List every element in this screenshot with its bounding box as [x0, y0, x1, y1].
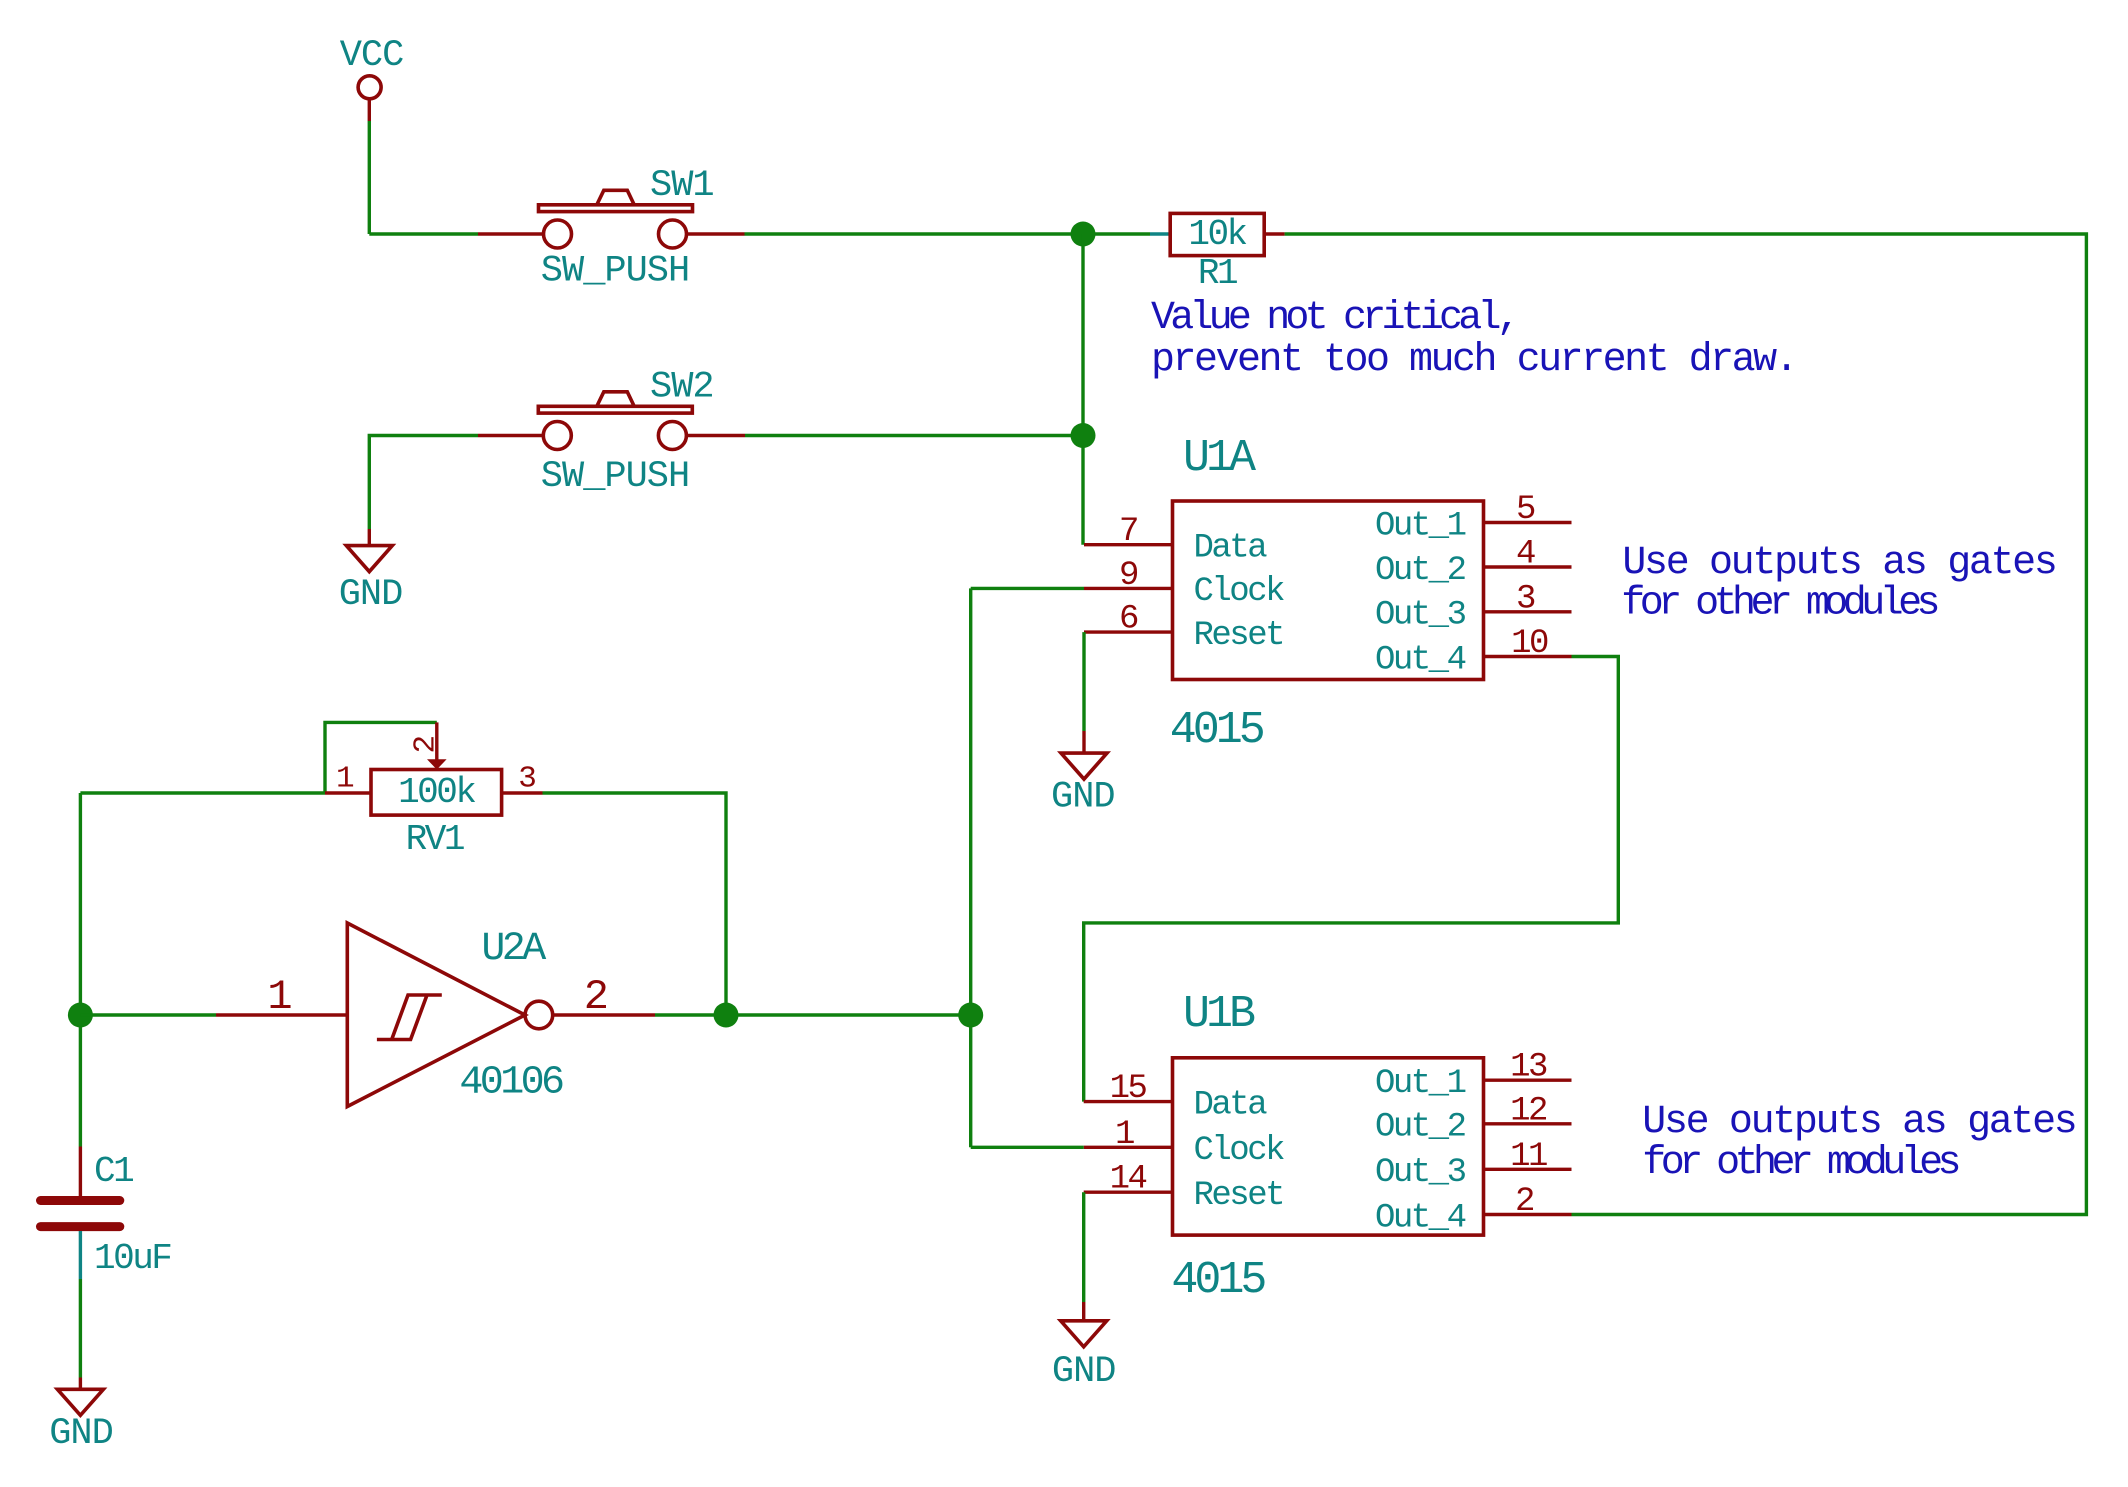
svg-text:4015: 4015: [1171, 1255, 1265, 1306]
wire: [543, 793, 727, 1015]
svg-text:12: 12: [1510, 1092, 1546, 1130]
junction: [1071, 222, 1096, 247]
wire: [655, 1013, 971, 1016]
IC U1A: [1173, 501, 1484, 680]
note: [1642, 1100, 2075, 1186]
svg-text:Out_4: Out_4: [1375, 641, 1466, 679]
wire: [1082, 632, 1085, 731]
U1A pin 4 Out_2: [1375, 536, 1572, 590]
svg-text:15: 15: [1110, 1070, 1147, 1108]
wire: [1084, 657, 1619, 1102]
U1B pin 14 Reset: [1084, 1161, 1283, 1215]
capacitor C1: [41, 1147, 172, 1280]
U1A pin 9 Clock: [1084, 557, 1284, 611]
svg-text:Out_2: Out_2: [1375, 1109, 1465, 1147]
svg-text:U1B: U1B: [1183, 989, 1255, 1040]
svg-text:1: 1: [336, 762, 355, 797]
U1B pin 1 Clock: [1084, 1116, 1284, 1170]
svg-text:Value not critical,: Value not critical,: [1151, 296, 1516, 341]
svg-text:10k: 10k: [1188, 214, 1246, 255]
svg-text:for other modules: for other modules: [1642, 1141, 1958, 1186]
wire: [745, 232, 1151, 235]
svg-text:for other modules: for other modules: [1621, 582, 1937, 627]
power VCC: [340, 35, 404, 121]
svg-text:1: 1: [267, 973, 292, 1021]
wire: [368, 121, 371, 234]
wire: [1081, 234, 1084, 545]
resistor R1: [1170, 213, 1284, 294]
svg-text:13: 13: [1510, 1049, 1547, 1087]
note: [1621, 541, 2055, 627]
switch SW1: [478, 165, 745, 293]
wire: [1285, 234, 2087, 1215]
junction: [714, 1003, 739, 1028]
svg-text:SW_PUSH: SW_PUSH: [541, 251, 689, 293]
svg-text:10: 10: [1511, 625, 1548, 663]
svg-text:Data: Data: [1194, 1086, 1268, 1124]
U1A pin 6 Reset: [1084, 601, 1283, 655]
svg-text:11: 11: [1510, 1138, 1547, 1176]
note: [1151, 296, 1796, 383]
svg-text:SW_PUSH: SW_PUSH: [541, 456, 689, 498]
U1A pin 10 Out_4: [1375, 625, 1572, 679]
svg-text:9: 9: [1119, 557, 1138, 595]
svg-text:R1: R1: [1198, 253, 1237, 294]
svg-text:GND: GND: [339, 574, 403, 616]
wire: [79, 1231, 82, 1279]
wire: [1082, 1192, 1085, 1302]
U1B pin 11 Out_3: [1375, 1138, 1572, 1192]
svg-text:3: 3: [518, 762, 537, 797]
svg-text:Use outputs as gates: Use outputs as gates: [1622, 541, 2055, 586]
svg-text:Out_4: Out_4: [1375, 1199, 1466, 1237]
wire: [79, 1279, 82, 1378]
svg-text:3: 3: [1516, 580, 1535, 618]
svg-text:4: 4: [1516, 536, 1535, 574]
switch SW2: [478, 366, 745, 498]
U1A pin 5 Out_1: [1375, 491, 1572, 545]
svg-text:7: 7: [1119, 513, 1137, 551]
svg-text:U1A: U1A: [1183, 433, 1256, 484]
ground: [1052, 1302, 1116, 1393]
wire: [79, 793, 82, 1147]
svg-text:Clock: Clock: [1194, 1132, 1285, 1170]
wire: [745, 434, 1071, 437]
svg-text:Data: Data: [1194, 530, 1268, 568]
ground: [339, 529, 403, 616]
svg-text:prevent too much current draw.: prevent too much current draw.: [1151, 338, 1796, 383]
junction: [1071, 423, 1096, 448]
svg-text:40106: 40106: [459, 1061, 563, 1106]
svg-text:100k: 100k: [398, 772, 475, 813]
svg-text:C1: C1: [94, 1151, 133, 1192]
svg-text:GND: GND: [49, 1413, 113, 1455]
U1B pin 15 Data: [1084, 1070, 1268, 1124]
svg-text:Out_1: Out_1: [1375, 1065, 1466, 1103]
svg-text:Out_3: Out_3: [1375, 597, 1466, 635]
svg-text:SW1: SW1: [650, 165, 714, 207]
svg-text:SW2: SW2: [650, 366, 714, 408]
svg-text:GND: GND: [1052, 1351, 1116, 1393]
svg-text:Out_2: Out_2: [1375, 552, 1465, 590]
wire: [80, 791, 325, 794]
svg-text:RV1: RV1: [406, 819, 464, 860]
U1A pin 7 Data: [1084, 513, 1267, 567]
svg-text:10uF: 10uF: [94, 1238, 171, 1279]
svg-text:2: 2: [584, 973, 609, 1021]
wire: [80, 1013, 216, 1016]
svg-text:Clock: Clock: [1194, 573, 1285, 611]
ground: [49, 1378, 113, 1456]
svg-text:1: 1: [1115, 1116, 1134, 1154]
IC U1B: [1173, 1058, 1484, 1235]
svg-text:14: 14: [1110, 1161, 1147, 1199]
svg-text:U2A: U2A: [481, 927, 546, 972]
svg-text:GND: GND: [1051, 777, 1115, 819]
svg-text:2: 2: [409, 735, 444, 754]
wire: [369, 436, 478, 530]
svg-text:2: 2: [1515, 1183, 1533, 1221]
inverter U2A: [216, 923, 655, 1107]
wire: [969, 588, 972, 1147]
wire: [1150, 232, 1170, 235]
U1B pin 12 Out_2: [1375, 1092, 1572, 1146]
svg-text:Reset: Reset: [1194, 1177, 1284, 1215]
ground: [1051, 731, 1115, 819]
U1A pin 3 Out_3: [1375, 580, 1572, 634]
svg-text:VCC: VCC: [340, 35, 404, 77]
U1B pin 2 Out_4: [1375, 1183, 1572, 1237]
svg-text:5: 5: [1516, 491, 1535, 529]
svg-text:6: 6: [1119, 601, 1138, 639]
wire: [369, 232, 478, 235]
junction: [68, 1003, 93, 1028]
svg-text:Out_1: Out_1: [1375, 507, 1466, 545]
junction: [958, 1003, 983, 1028]
svg-text:4015: 4015: [1170, 705, 1264, 756]
wire: [971, 1146, 1084, 1149]
wire: [971, 587, 1084, 590]
svg-text:Use outputs as gates: Use outputs as gates: [1642, 1100, 2075, 1145]
U1B pin 13 Out_1: [1375, 1049, 1572, 1103]
svg-text:Out_3: Out_3: [1375, 1154, 1466, 1192]
potentiometer RV1: [325, 722, 543, 860]
svg-text:Reset: Reset: [1194, 617, 1284, 655]
